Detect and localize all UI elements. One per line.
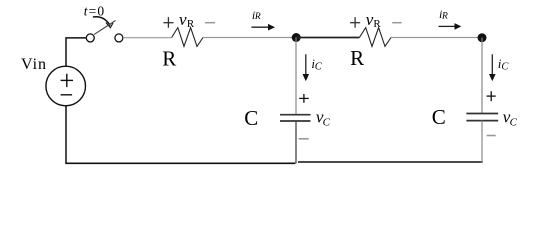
- bottom rail left segment: [65, 162, 295, 164]
- switch closing arc arrow: [93, 17, 110, 26]
- minus sign of vR2: [392, 22, 402, 24]
- minus sign of vC2: [487, 135, 496, 137]
- capacitor C1 bottom plate: [280, 120, 311, 122]
- svg-text:Vin: Vin: [21, 56, 47, 73]
- wire left vertical top (switch to Vin source top): [66, 38, 86, 66]
- plus sign of vC2: [487, 91, 496, 101]
- current arrow iR2: [439, 25, 455, 27]
- svg-text:C: C: [510, 116, 518, 128]
- svg-text:C: C: [244, 106, 258, 130]
- switch contact circle left: [86, 34, 94, 42]
- svg-text:R: R: [350, 46, 364, 70]
- svg-text:C: C: [432, 105, 446, 129]
- capacitor C1 top plate: [280, 114, 311, 116]
- svg-text:C: C: [323, 117, 331, 129]
- resistor R2 zigzag: [359, 28, 391, 47]
- svg-text:C: C: [501, 61, 509, 72]
- plus sign of vR2: [350, 17, 360, 28]
- voltage source Vin circle: [46, 66, 86, 106]
- svg-text:R: R: [373, 18, 381, 30]
- switch blade: [94, 21, 115, 35]
- plus sign of vC1: [299, 94, 309, 103]
- svg-text:v: v: [179, 10, 187, 29]
- wire switch to resistor R1: [123, 37, 172, 39]
- wire R2 to node B: [391, 37, 478, 39]
- svg-text:R: R: [162, 46, 176, 70]
- wire C2 bottom to rail: [481, 121, 483, 163]
- minus sign of vC1: [299, 138, 309, 140]
- svg-text:R: R: [187, 18, 195, 30]
- bottom rail right segment: [298, 161, 483, 163]
- wire Vin bottom to rail: [65, 106, 67, 164]
- node A junction dot: [292, 33, 301, 42]
- svg-text:C: C: [315, 61, 323, 72]
- wire R1 to node A: [203, 37, 292, 39]
- capacitor C2 top plate: [466, 113, 498, 115]
- wire C1 bottom to rail: [295, 121, 297, 163]
- resistor R1 zigzag: [172, 28, 203, 47]
- wire node A down to capacitor C1: [295, 38, 297, 115]
- svg-text:R: R: [441, 12, 448, 22]
- capacitor C2 bottom plate: [466, 120, 498, 122]
- minus sign of vR1: [205, 22, 215, 24]
- wire node B down to capacitor C2: [481, 38, 483, 114]
- switch contact circle right: [115, 34, 123, 42]
- plus sign of vR1: [163, 17, 173, 28]
- Vin plus sign: [61, 74, 73, 87]
- node B junction dot: [478, 33, 487, 42]
- current arrow iR1: [251, 26, 268, 28]
- Vin minus sign: [61, 94, 73, 96]
- wire node A to resistor R2: [296, 37, 359, 39]
- current arrow iC1: [305, 54, 307, 74]
- svg-text:R: R: [254, 12, 261, 22]
- current arrow iC2: [491, 54, 493, 74]
